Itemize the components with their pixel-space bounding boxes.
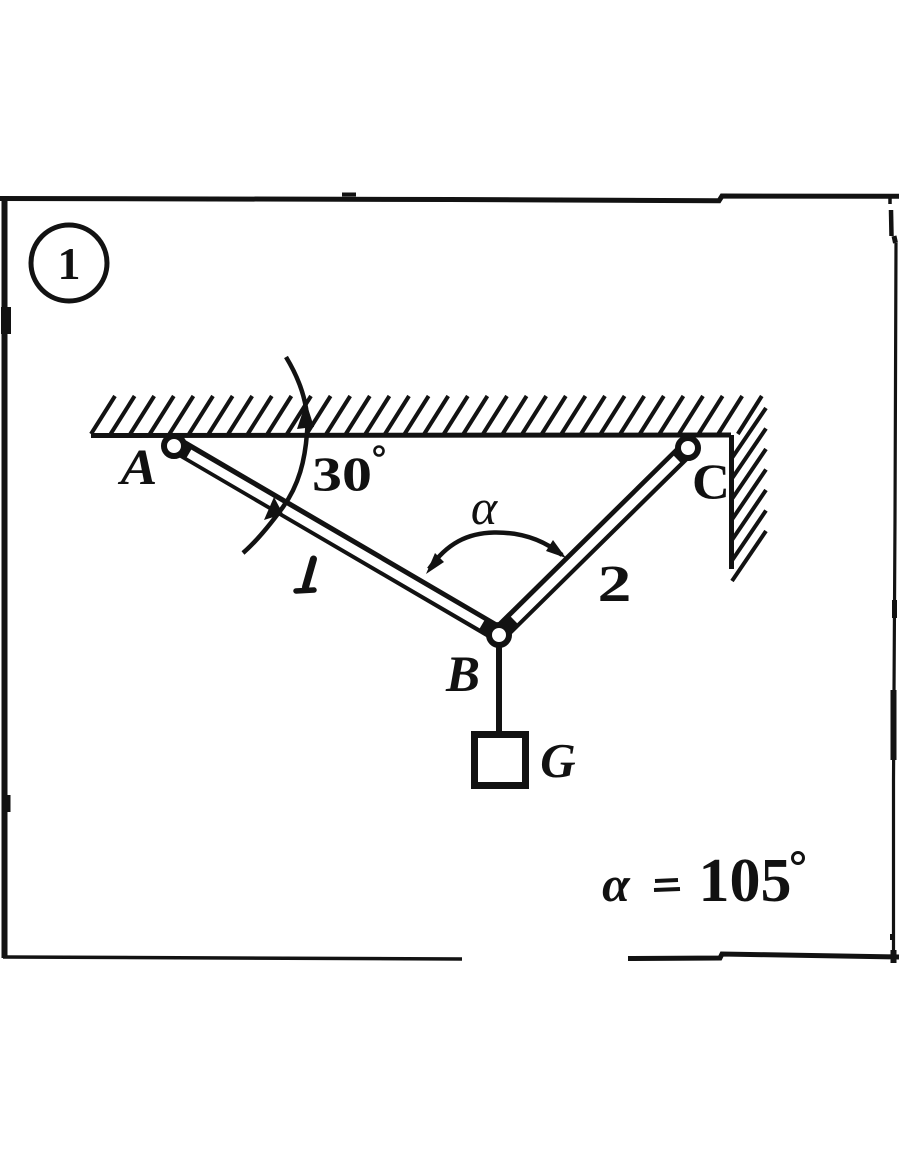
frame right border bbox=[888, 199, 892, 205]
svg-text:2: 2 bbox=[598, 555, 632, 613]
degree mark for 30 bbox=[375, 447, 384, 456]
30 arc arrowhead bottom bbox=[264, 497, 283, 520]
frame left border bbox=[2, 197, 8, 958]
frame right border blobs bbox=[892, 600, 897, 618]
label rod 1 bbox=[306, 559, 314, 587]
formula alpha = 105 deg bbox=[602, 847, 803, 915]
top border nub bbox=[342, 193, 356, 197]
wall line right bbox=[729, 435, 734, 569]
svg-text:105: 105 bbox=[699, 847, 792, 915]
30 arc arrowhead top bbox=[297, 402, 314, 429]
frame left border blobs bbox=[1, 307, 11, 334]
pin B bbox=[489, 625, 509, 645]
wall hatching bbox=[732, 408, 766, 581]
svg-text:1: 1 bbox=[58, 238, 81, 289]
svg-text:G: G bbox=[540, 733, 575, 788]
rope B to weight bbox=[496, 646, 502, 735]
rod 1 (A to B) bbox=[176, 445, 504, 637]
alpha arc arrowhead right bbox=[546, 540, 566, 558]
ceiling line bbox=[91, 433, 731, 439]
30 degree arc bbox=[243, 357, 307, 553]
pin A bbox=[164, 436, 184, 456]
alpha arc at B bbox=[429, 532, 562, 569]
svg-text:B: B bbox=[445, 647, 480, 703]
ceiling hatching bbox=[91, 396, 762, 434]
alpha arc arrowhead left bbox=[426, 553, 444, 574]
frame bottom border right segment bbox=[628, 954, 899, 959]
svg-text:30: 30 bbox=[312, 447, 372, 501]
svg-text:A: A bbox=[118, 440, 158, 496]
pin C bbox=[678, 438, 698, 458]
frame top border bbox=[0, 196, 899, 201]
frame bottom border left segment bbox=[3, 957, 462, 959]
svg-text:α: α bbox=[602, 856, 631, 912]
svg-text:C: C bbox=[692, 454, 730, 510]
svg-text:α: α bbox=[471, 479, 499, 535]
rod 2 (B to C) bbox=[494, 449, 687, 639]
circled figure number 1 bbox=[31, 225, 107, 301]
weight box G bbox=[475, 735, 526, 786]
